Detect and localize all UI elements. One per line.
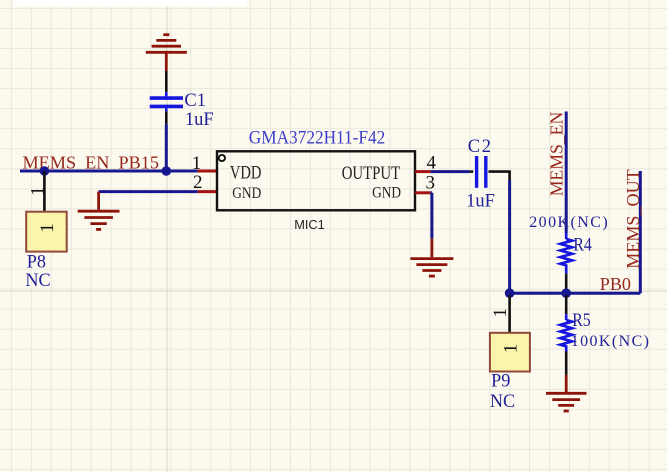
- svg-text:OUTPUT: OUTPUT: [342, 162, 401, 183]
- pin1 marker circle: [219, 155, 225, 161]
- svg-text:C2: C2: [468, 137, 491, 157]
- svg-text:2: 2: [193, 172, 203, 193]
- capacitor C1: [150, 71, 183, 124]
- svg-text:1: 1: [37, 223, 58, 233]
- svg-text:R5: R5: [572, 309, 591, 331]
- svg-text:PB0: PB0: [600, 274, 631, 294]
- ground GND2 (below pin2): [78, 192, 120, 230]
- wire C2 to corner: [488, 170, 509, 180]
- svg-text:1: 1: [28, 186, 49, 196]
- connector P9 body: [490, 333, 530, 372]
- svg-text:1: 1: [501, 344, 522, 354]
- pin 3 of MIC1: [415, 191, 431, 194]
- wire pin3 to ground: [431, 193, 432, 239]
- svg-text:MEMS_EN: MEMS_EN: [547, 112, 567, 197]
- junction at P8 drop: [40, 166, 50, 176]
- connector P8 body: [26, 212, 66, 252]
- svg-text:MIC1: MIC1: [294, 217, 325, 232]
- pin 1 of MIC1: [198, 170, 217, 173]
- svg-text:MEMS_OUT: MEMS_OUT: [623, 169, 643, 269]
- svg-text:GMA3722H11-F42: GMA3722H11-F42: [249, 127, 385, 148]
- resistor R5: [560, 314, 572, 351]
- svg-text:R4: R4: [573, 233, 592, 255]
- wire pin4 to C2: [431, 170, 470, 173]
- svg-text:NC: NC: [490, 391, 515, 413]
- wire P9 pin (vertical): [508, 295, 511, 333]
- pin 2 of MIC1: [198, 190, 217, 193]
- pin 4 of MIC1: [415, 170, 431, 173]
- svg-text:P9: P9: [491, 370, 510, 392]
- wire MEMS EN vertical: [565, 112, 568, 234]
- junction at C1: [162, 166, 172, 176]
- svg-text:100K(NC): 100K(NC): [571, 333, 649, 350]
- svg-text:GND: GND: [372, 185, 401, 202]
- ground GND1 (top, flipped): [146, 35, 187, 71]
- wire pin2 to ground: [99, 190, 198, 193]
- resistor R4: [560, 233, 572, 274]
- wire PB0 horizontal: [510, 292, 641, 295]
- svg-text:NC: NC: [25, 270, 50, 292]
- wire MEMS OUT vertical: [639, 171, 642, 293]
- wire R5 to ground: [565, 352, 568, 375]
- svg-text:3: 3: [426, 173, 436, 194]
- wire main horizontal: [20, 170, 198, 173]
- svg-text:1: 1: [490, 308, 511, 318]
- svg-text:1uF: 1uF: [466, 191, 495, 211]
- svg-text:1uF: 1uF: [185, 110, 214, 130]
- capacitor C2: [477, 156, 486, 188]
- junction at R4/R5: [561, 288, 571, 298]
- svg-text:VDD: VDD: [230, 162, 261, 183]
- svg-text:200K(NC): 200K(NC): [529, 214, 608, 231]
- wire P8 pin (vertical): [43, 171, 46, 212]
- wire R4 to junction: [565, 274, 568, 292]
- IC MIC1 (GMA3722H11-F42) body: [217, 151, 415, 210]
- ground GND4 (below R5): [546, 375, 587, 411]
- wire junction to R5: [565, 295, 568, 314]
- wire C1 to junction: [165, 124, 168, 171]
- svg-text:GND: GND: [232, 185, 261, 202]
- ground GND3 (below pin3): [410, 238, 453, 276]
- junction at C2 branch: [505, 288, 515, 298]
- svg-text:C1: C1: [184, 91, 206, 111]
- svg-text:1: 1: [192, 153, 202, 174]
